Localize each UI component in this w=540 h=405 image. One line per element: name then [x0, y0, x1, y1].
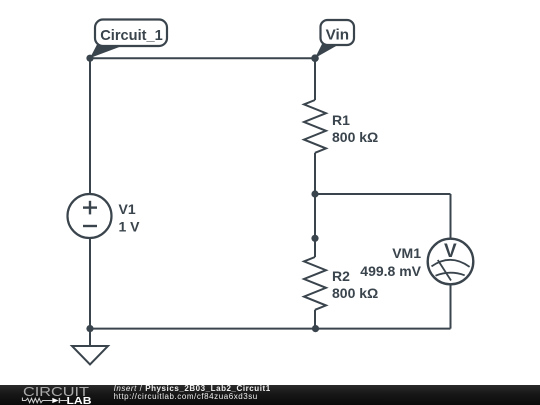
footer bar	[0, 385, 540, 405]
wire left vertical V1 bottom lead	[89, 238, 91, 329]
svg-text:R1: R1	[332, 112, 350, 128]
svg-text:800 kΩ: 800 kΩ	[332, 129, 378, 145]
svg-text:1 V: 1 V	[119, 218, 141, 234]
wire voltmeter top lead	[450, 194, 452, 239]
wire node A to voltmeter horizontal	[315, 193, 451, 195]
svg-text:Circuit_1: Circuit_1	[100, 27, 163, 44]
node dot Vin anchor	[311, 54, 319, 62]
svg-text:499.8 mV: 499.8 mV	[360, 263, 421, 279]
svg-text:VM1: VM1	[392, 245, 421, 261]
footer title text	[114, 385, 271, 400]
voltage source V1	[68, 194, 112, 238]
voltmeter VM1	[428, 239, 474, 285]
svg-text:V: V	[444, 241, 457, 262]
CircuitLab logo	[0, 385, 110, 405]
net label Vin	[315, 20, 354, 58]
junction dot mid wire	[311, 235, 318, 242]
resistor R2	[304, 257, 326, 310]
wire voltmeter bottom lead	[450, 284, 452, 329]
wire top horizontal Circuit_1 to Vin	[90, 57, 315, 59]
wire bottom horizontal	[90, 328, 451, 330]
svg-text:800 kΩ: 800 kΩ	[332, 285, 378, 301]
wire ground stub	[89, 329, 91, 346]
ground	[72, 346, 108, 365]
wire node A to R2 top	[314, 194, 316, 257]
svg-text:Vin: Vin	[326, 26, 349, 43]
svg-text:V1: V1	[119, 201, 136, 217]
svg-text:LAB: LAB	[67, 396, 92, 405]
node dot Circuit_1 anchor	[86, 55, 93, 62]
resistor R1	[304, 100, 326, 153]
wire R1 top lead from Vin node	[314, 58, 316, 100]
junction dot ground	[86, 325, 93, 332]
wire R2 bottom lead	[314, 310, 316, 329]
net label Circuit_1	[90, 20, 167, 59]
junction dot R2 bottom	[312, 325, 319, 332]
junction node A	[311, 190, 318, 197]
svg-text:R2: R2	[332, 268, 350, 284]
wire left vertical V1 top lead	[89, 58, 91, 194]
wire R1 bottom lead to node A	[314, 153, 316, 194]
